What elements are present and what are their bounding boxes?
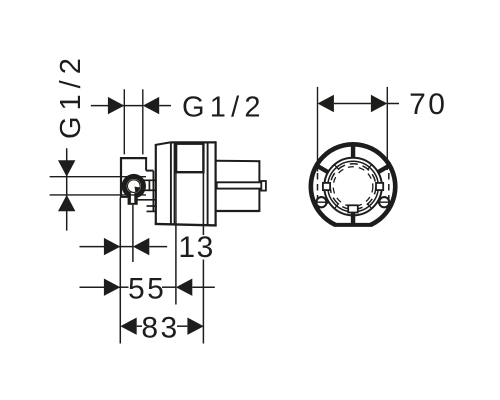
front view: side lugs xyxy=(323,183,330,190)
front view: spokes xyxy=(318,146,389,225)
rear housing box (side view right) xyxy=(216,160,260,212)
dimension G1/2 left: line and arrows xyxy=(58,148,75,230)
svg-text:13: 13 xyxy=(178,231,214,264)
front view: dashed circles xyxy=(330,164,376,210)
dimension 83 xyxy=(120,318,204,335)
extension line: 83 right (broken by text) xyxy=(202,225,204,235)
main valve body (side view) xyxy=(155,141,217,226)
pipe stubs between boss and body xyxy=(138,180,157,212)
extension line: bracket face (55/83/13 left) xyxy=(119,198,121,344)
spindle rod xyxy=(217,181,266,191)
cartridge box corner drop lines xyxy=(175,172,177,224)
front view: inner double ring xyxy=(324,158,382,216)
front view: outer ring with flat bottom xyxy=(309,142,398,227)
svg-text:70: 70 xyxy=(409,88,447,121)
cartridge box (inner rectangle) xyxy=(176,144,203,173)
dimension G1/2 left: measure lines xyxy=(50,176,146,178)
dimension 55 xyxy=(80,279,215,296)
svg-text:G1/2: G1/2 xyxy=(182,92,266,124)
front view: dashed flats (70 across) xyxy=(317,162,319,212)
wall bracket flange (side view) xyxy=(120,157,153,212)
svg-text:83: 83 xyxy=(141,312,179,345)
dimension 70: extension lines xyxy=(317,87,319,172)
retaining clip below boss xyxy=(128,193,138,205)
svg-text:55: 55 xyxy=(128,273,166,306)
dimension 70: line and arrows xyxy=(318,95,400,112)
svg-text:G1/2: G1/2 xyxy=(55,52,87,139)
extension line: boss axis (13 right) xyxy=(132,205,134,262)
front view: spline tick marks xyxy=(335,165,371,208)
front view: screws xyxy=(316,197,390,207)
dimension 13 xyxy=(80,238,168,255)
front view: bottom tab xyxy=(348,205,358,212)
dimension G1/2 top: extension lines xyxy=(123,89,125,154)
G1/2 union boss (side view) xyxy=(122,174,146,198)
dimension G1/2 top: line and arrows xyxy=(91,97,171,114)
extension line: 55 right xyxy=(175,225,177,305)
